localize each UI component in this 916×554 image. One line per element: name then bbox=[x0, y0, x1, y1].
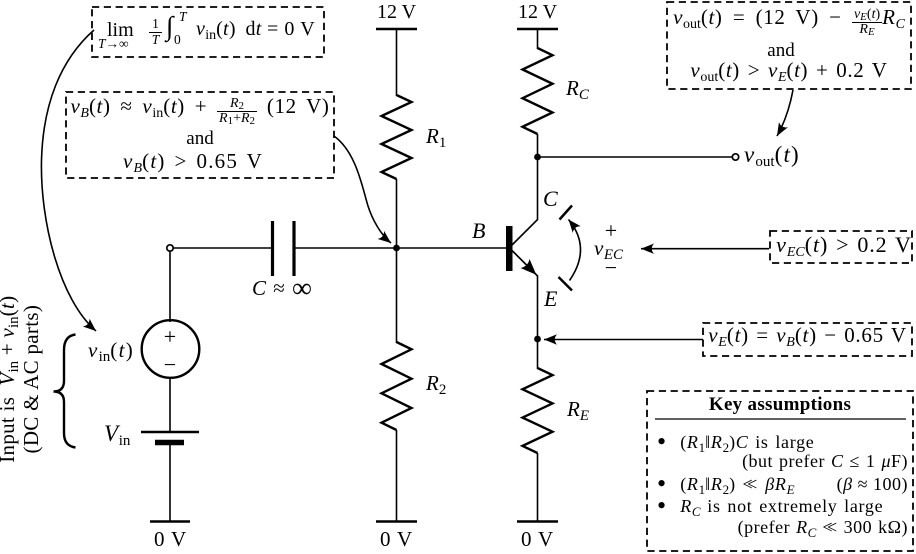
vEC measurement arc bbox=[569, 220, 581, 281]
label Vin bbox=[104, 422, 130, 447]
arrow: vE box to emitter node bbox=[544, 339, 703, 341]
key bullet 2 bbox=[657, 475, 795, 494]
label + of vEC bbox=[596, 219, 626, 243]
wire terminal down to source bbox=[169, 251, 171, 322]
text: vEC box bbox=[773, 233, 915, 257]
label 12V right bbox=[507, 2, 568, 24]
text: vout box line 3 bbox=[667, 59, 911, 82]
dashed box: lim average bbox=[92, 7, 324, 57]
lim bbox=[107, 20, 134, 42]
transistor emitter diagonal bbox=[512, 251, 538, 277]
integral upper limit T bbox=[179, 10, 187, 25]
label R1 bbox=[426, 125, 446, 148]
lim subscript T to infinity bbox=[98, 37, 129, 52]
curly brace bbox=[54, 335, 76, 448]
key bullet 2 right bbox=[647, 475, 908, 494]
label vout(t) bbox=[744, 143, 800, 168]
AC source vin circle bbox=[142, 320, 200, 378]
key bullet 1 line 2 bbox=[647, 452, 908, 471]
arrow: vB box to base node bbox=[334, 136, 391, 243]
text: vout box line 1 bbox=[667, 6, 911, 37]
key bullet 3 bbox=[657, 497, 883, 516]
transistor collector diagonal bbox=[512, 219, 538, 245]
label + of source bbox=[155, 325, 185, 349]
integral lower limit 0 bbox=[174, 33, 181, 48]
label B bbox=[472, 219, 485, 243]
resistor R2 bbox=[382, 342, 412, 430]
wire battery to ground bbox=[169, 445, 171, 522]
text: vB box line 3 bbox=[59, 150, 327, 173]
node B (base) bbox=[393, 245, 400, 252]
vout open terminal bbox=[732, 154, 738, 160]
vEC arc tick near C bbox=[560, 206, 573, 220]
text: key assumptions title bbox=[647, 395, 913, 416]
wire RE to ground bbox=[537, 453, 539, 522]
label 0V right bbox=[507, 528, 568, 551]
label R2 bbox=[426, 372, 446, 395]
label C (collector) bbox=[543, 187, 558, 211]
arrow: vEC box to vEC label bbox=[641, 248, 769, 250]
wire base node to transistor bbox=[397, 247, 507, 249]
key assumptions title rule bbox=[655, 418, 906, 420]
resistor RC bbox=[523, 48, 553, 134]
resistor R1 bbox=[382, 95, 412, 179]
dashed box: vEC condition bbox=[770, 231, 912, 263]
12V rail bar (left / R1 column) bbox=[376, 28, 417, 31]
wire terminal to capacitor bbox=[174, 247, 273, 249]
ground (right) bbox=[517, 520, 558, 523]
text: vB box 'and' bbox=[66, 129, 334, 150]
label vin(t) bbox=[88, 339, 134, 362]
arrow: lim box to vin label bbox=[41, 30, 96, 331]
ground (middle) bbox=[376, 520, 417, 523]
text: vE box bbox=[703, 324, 912, 347]
arrow: vout box to vout terminal bbox=[777, 90, 793, 136]
label - of vEC bbox=[596, 256, 626, 280]
ground (left) bbox=[150, 520, 190, 523]
wire source to battery bbox=[169, 378, 171, 431]
resistor RE bbox=[523, 368, 553, 453]
dashed box: vout equations bbox=[667, 2, 911, 89]
dashed box: vB conditions bbox=[66, 92, 334, 178]
node collector/output junction bbox=[534, 154, 541, 161]
wire capacitor to base node bbox=[294, 247, 397, 249]
label E (emitter) bbox=[544, 287, 557, 311]
fraction 1/T bbox=[149, 17, 162, 46]
battery Vin short plate bbox=[155, 440, 184, 446]
transistor emitter arrowhead bbox=[520, 259, 540, 279]
dashed box: key assumptions bbox=[647, 391, 913, 551]
wire 12V rail to RC bbox=[537, 29, 539, 49]
12V rail bar (right / RC column) bbox=[517, 28, 558, 31]
battery Vin long plate bbox=[141, 431, 199, 434]
dashed box: vE equation bbox=[703, 323, 912, 356]
label 0V left bbox=[140, 528, 201, 551]
label RC bbox=[566, 77, 589, 100]
key bullet 1 bbox=[657, 433, 814, 452]
wire 12V rail to R1 bbox=[396, 29, 398, 96]
integrand bbox=[196, 19, 315, 41]
vEC arc tick near E bbox=[559, 277, 573, 291]
wire RC to collector node bbox=[537, 134, 539, 220]
label 12V left bbox=[366, 2, 427, 24]
label vEC bbox=[594, 237, 623, 260]
text: vout box 'and' bbox=[659, 41, 903, 62]
label - of source bbox=[155, 353, 185, 377]
label C approx infinity bbox=[252, 277, 313, 300]
wire R1 to base node bbox=[396, 179, 398, 343]
integral sign bbox=[166, 12, 173, 41]
key bullet 3 line 2 bbox=[647, 518, 908, 537]
wire R2 to ground bbox=[396, 430, 398, 522]
label 0V middle bbox=[366, 528, 427, 551]
text: vB box line 1 bbox=[66, 95, 334, 126]
transistor Q1 base bar bbox=[506, 226, 513, 271]
wire to vout terminal bbox=[538, 156, 733, 158]
label RE bbox=[567, 398, 589, 421]
rotated input annotation bbox=[0, 275, 42, 483]
node E (emitter) bbox=[534, 336, 541, 343]
input open terminal bbox=[167, 245, 173, 251]
wire emitter to E node bbox=[537, 276, 539, 369]
capacitor C plates bbox=[271, 221, 274, 276]
